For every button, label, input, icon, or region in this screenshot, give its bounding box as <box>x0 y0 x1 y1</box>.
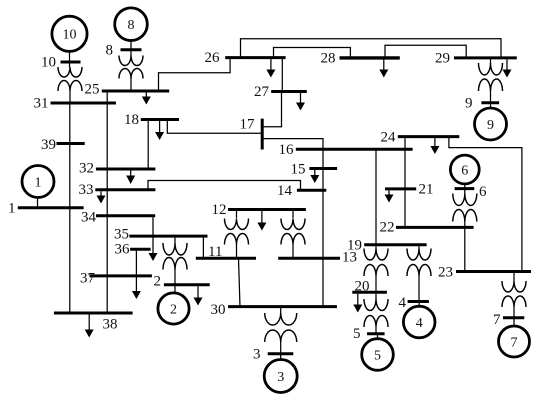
svg-text:9: 9 <box>487 118 494 133</box>
svg-text:10: 10 <box>63 28 77 43</box>
bus 12 <box>228 208 306 211</box>
svg-text:36: 36 <box>115 242 131 258</box>
wire 31-39-1-38 <box>69 103 71 313</box>
load arrow bus 25 <box>142 93 151 105</box>
bus 7 <box>503 316 524 319</box>
wire 11-30 <box>239 258 241 306</box>
bus 31 <box>51 102 116 105</box>
generator U1 <box>22 166 54 208</box>
svg-text:9: 9 <box>465 96 473 112</box>
svg-text:8: 8 <box>106 43 114 59</box>
svg-text:28: 28 <box>321 51 336 67</box>
generator U7 <box>499 318 530 357</box>
wire 28-29 <box>385 45 466 58</box>
svg-text:31: 31 <box>34 96 49 112</box>
wire 17-16-15-14-13-30 <box>262 139 323 307</box>
bus 28 <box>340 56 400 59</box>
svg-text:24: 24 <box>381 130 397 146</box>
bus 29 <box>454 56 517 59</box>
bus 37 <box>90 274 152 277</box>
svg-text:3: 3 <box>253 347 261 363</box>
svg-text:15: 15 <box>291 162 306 178</box>
load arrow bus 2 <box>194 286 203 305</box>
transformer T7 (23-7) <box>502 272 526 319</box>
svg-text:10: 10 <box>41 55 56 71</box>
svg-text:30: 30 <box>211 302 226 318</box>
bus 16 <box>296 148 413 151</box>
load arrow bus 24 <box>430 138 439 154</box>
generator U2 <box>158 285 189 324</box>
bus 27 <box>271 90 307 93</box>
svg-text:26: 26 <box>205 50 221 66</box>
svg-text:22: 22 <box>380 220 395 236</box>
svg-text:21: 21 <box>419 182 434 198</box>
transformer T9 (29-9) <box>479 59 503 104</box>
transformer T5 (20-5) <box>364 294 388 335</box>
wire 22-23 <box>464 227 466 271</box>
svg-text:2: 2 <box>154 274 162 290</box>
bus 22 <box>396 226 474 229</box>
bus 1 <box>18 206 84 209</box>
bus 39 <box>57 142 85 145</box>
wire 18-17 <box>167 120 262 134</box>
svg-text:27: 27 <box>254 84 270 100</box>
wire 18-32 <box>147 120 149 170</box>
svg-text:8: 8 <box>128 18 135 33</box>
wire 26-29 <box>241 39 502 58</box>
load arrow bus 34-35 <box>149 217 158 261</box>
bus 38 <box>54 312 133 315</box>
svg-text:1: 1 <box>8 201 16 217</box>
wire 26-27 <box>281 58 283 92</box>
svg-text:1: 1 <box>35 176 42 191</box>
bus 11 <box>196 257 256 260</box>
bus 17 (vertical) <box>261 119 264 150</box>
bus 13 <box>278 257 340 260</box>
load arrow bus 20 <box>353 294 362 313</box>
load arrow bus 21 <box>385 190 394 202</box>
bus 4 <box>408 300 429 303</box>
load arrow bus 38 <box>85 315 94 338</box>
transformer T10 (10-31) <box>58 67 82 104</box>
bus 26 <box>225 56 285 59</box>
load arrow bus 18 <box>155 121 164 140</box>
svg-text:23: 23 <box>438 265 453 281</box>
svg-text:29: 29 <box>435 51 450 67</box>
bus 6 <box>455 187 475 190</box>
generator U8 <box>115 8 148 56</box>
bus 21 <box>385 187 416 190</box>
svg-text:33: 33 <box>79 182 94 198</box>
svg-text:2: 2 <box>170 303 177 318</box>
svg-text:38: 38 <box>103 317 118 333</box>
load arrow bus 27 <box>296 93 305 111</box>
svg-text:7: 7 <box>511 336 518 351</box>
bus 24 <box>398 135 460 138</box>
generator U5 <box>362 334 394 371</box>
bus 19 <box>364 243 426 246</box>
transformer T12-13 <box>281 211 305 259</box>
transformer T2 (35-2) <box>163 238 187 286</box>
svg-text:3: 3 <box>277 370 284 385</box>
svg-text:20: 20 <box>355 279 370 295</box>
svg-text:12: 12 <box>212 202 227 218</box>
bus 2 <box>164 283 210 286</box>
svg-text:37: 37 <box>80 271 96 287</box>
svg-text:5: 5 <box>374 349 381 364</box>
load arrow bus 28 <box>379 60 388 78</box>
svg-text:34: 34 <box>81 210 97 226</box>
load arrow bus 29 <box>503 60 512 78</box>
bus 3 <box>268 352 294 355</box>
bus 25 <box>102 90 169 93</box>
bus 34 <box>96 214 155 217</box>
svg-text:32: 32 <box>79 161 94 177</box>
generator U4 <box>403 302 435 338</box>
bus 10 <box>61 61 81 64</box>
transformer T19-4 <box>407 246 431 302</box>
load arrow bus 33 <box>97 191 106 203</box>
load arrow bus 32 <box>126 171 135 185</box>
wire 35-11 <box>202 236 204 258</box>
bus 30 <box>228 305 337 308</box>
load arrow bus 36-37 <box>132 251 141 299</box>
svg-text:4: 4 <box>399 295 407 311</box>
bus 33 <box>95 188 155 191</box>
bus 15 <box>309 167 337 170</box>
bus 20 <box>352 291 387 294</box>
transformer T19-20 <box>364 246 388 293</box>
wire 25-31-32-33-34-37-38 <box>106 91 108 313</box>
bus 23 <box>456 270 531 273</box>
bus 35 <box>129 235 207 238</box>
generator U3 <box>264 354 297 393</box>
wire 33-14 <box>148 181 301 191</box>
wire 24-23 <box>449 137 522 272</box>
wire 21-22 <box>404 189 406 228</box>
wire 26-28 <box>274 48 351 58</box>
svg-text:18: 18 <box>124 112 139 128</box>
wire 25-26 <box>159 58 231 91</box>
generator U9 <box>475 103 507 140</box>
bus 32 <box>96 168 155 171</box>
svg-text:13: 13 <box>342 250 357 266</box>
svg-text:16: 16 <box>279 142 295 158</box>
load arrow bus 26 <box>266 59 275 78</box>
transformer T6 (6-22) <box>453 194 477 229</box>
svg-text:7: 7 <box>493 312 501 328</box>
transformer T8 (8-25) <box>119 56 143 93</box>
bus 36 <box>130 248 151 251</box>
wire 24-16-21 <box>404 137 406 189</box>
svg-text:5: 5 <box>353 326 361 342</box>
load arrow bus 15 <box>310 170 319 183</box>
load arrow bus 12 <box>257 211 266 231</box>
bus 14 <box>297 189 326 192</box>
bus 18 <box>141 118 179 121</box>
svg-text:39: 39 <box>41 137 56 153</box>
generator U10 <box>52 16 87 67</box>
wire 16-19 <box>375 149 377 245</box>
wire 27-17 <box>262 92 281 127</box>
svg-text:25: 25 <box>85 82 100 98</box>
generator U6 <box>450 155 479 194</box>
svg-text:6: 6 <box>461 164 468 179</box>
svg-text:11: 11 <box>208 244 222 260</box>
transformer T3 (30-3) <box>265 308 297 355</box>
svg-text:4: 4 <box>416 316 423 331</box>
svg-text:6: 6 <box>479 184 487 200</box>
svg-text:35: 35 <box>114 227 129 243</box>
svg-text:14: 14 <box>277 183 293 199</box>
bus 5 <box>367 332 385 335</box>
bus 9 <box>481 101 499 104</box>
svg-text:17: 17 <box>240 117 256 133</box>
transformer T12-11 <box>225 211 249 259</box>
bus 8 <box>121 48 142 51</box>
